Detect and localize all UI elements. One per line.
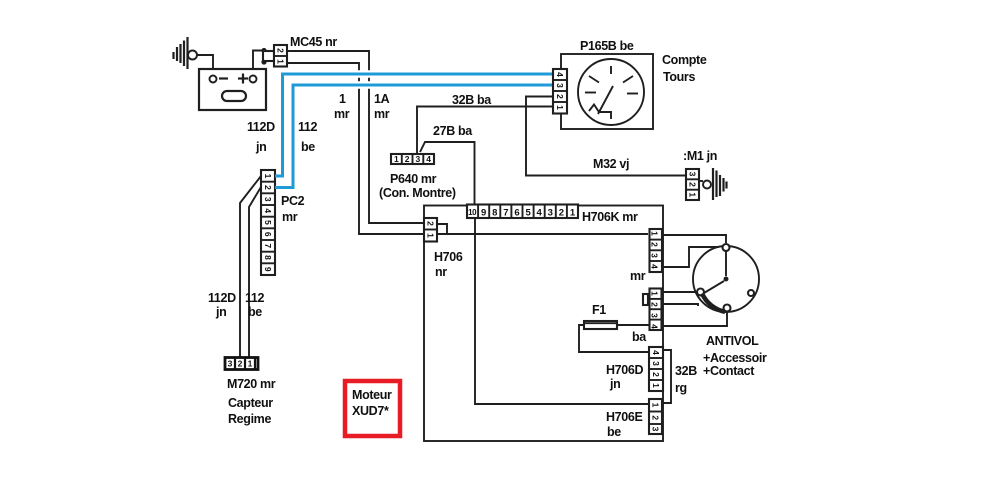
svg-text:2: 2	[555, 94, 565, 99]
svg-text:PC2: PC2	[281, 194, 305, 208]
svg-text:112D: 112D	[208, 291, 236, 305]
svg-text:3: 3	[650, 253, 660, 258]
bracket 32B rg	[663, 350, 671, 403]
wire ba pin2 to switch edge	[661, 304, 698, 306]
connector H706 left	[424, 218, 437, 242]
svg-text:P640 mr: P640 mr	[390, 172, 437, 186]
svg-text:4: 4	[651, 350, 661, 355]
svg-text:1: 1	[651, 383, 661, 388]
svg-text:2: 2	[426, 221, 436, 226]
wire mr pin1 to top contact	[661, 235, 726, 243]
svg-text:8: 8	[492, 208, 497, 219]
svg-text:rg: rg	[675, 381, 687, 395]
wire PC2 pin1 to M720 (112D jn)	[240, 176, 261, 358]
svg-text:jn: jn	[255, 140, 266, 154]
wire PC2 pin2 to M720 (112 be)	[249, 187, 261, 358]
wire inside H706K pin10 to H706E pin1	[475, 218, 649, 404]
svg-text:6: 6	[514, 208, 519, 219]
svg-text:Capteur: Capteur	[228, 396, 273, 410]
svg-text:2: 2	[276, 48, 286, 53]
wire blue 112D jn (tach pin4 to PC2 pin1)	[275, 74, 553, 176]
svg-text:1: 1	[650, 291, 660, 296]
svg-text:4: 4	[263, 208, 273, 213]
svg-text:6: 6	[263, 232, 273, 237]
svg-text:3: 3	[651, 361, 661, 366]
svg-text:jn: jn	[215, 305, 226, 319]
svg-text:ANTIVOL: ANTIVOL	[706, 334, 759, 348]
svg-text:M32 vj: M32 vj	[593, 157, 629, 171]
svg-text:nr: nr	[435, 265, 447, 279]
svg-text:2: 2	[651, 415, 661, 420]
connector M720	[225, 358, 258, 370]
svg-text:1: 1	[339, 92, 346, 106]
svg-text:2: 2	[651, 372, 661, 377]
wire 27B ba (P640 pin4 to H706K pin10)	[420, 142, 475, 205]
svg-text:mr: mr	[282, 210, 298, 224]
ignition switch ANTIVOL	[693, 244, 759, 312]
svg-text:2: 2	[650, 242, 660, 247]
svg-text:1A: 1A	[374, 92, 390, 106]
Moteur XUD7 red box	[345, 381, 400, 436]
tachometer P165B box	[561, 54, 653, 129]
svg-text:1: 1	[263, 174, 273, 179]
svg-text:Tours: Tours	[663, 70, 695, 84]
wire ground to battery minus	[197, 55, 213, 69]
tachometer gauge face	[578, 59, 644, 125]
svg-text:1: 1	[426, 233, 436, 238]
svg-text:112D: 112D	[247, 120, 275, 134]
svg-text:+Accessoir: +Accessoir	[703, 351, 767, 365]
svg-text:4: 4	[650, 324, 660, 329]
wire fuse left to H706D pin1	[579, 325, 649, 352]
connector mr (right top)	[650, 229, 663, 272]
svg-text:ba: ba	[632, 330, 647, 344]
svg-text:5: 5	[263, 220, 273, 225]
wire mr pin4 to switch edge	[661, 247, 719, 267]
fuse F1	[584, 321, 617, 329]
svg-text:+Contact: +Contact	[703, 364, 755, 378]
svg-text:9: 9	[481, 208, 486, 219]
svg-text:1: 1	[651, 403, 661, 408]
wire M32 vj (tach pin2 to M1)	[526, 97, 686, 176]
svg-text:32B: 32B	[675, 364, 697, 378]
svg-text:1: 1	[555, 105, 565, 110]
svg-text:M720 mr: M720 mr	[227, 377, 276, 391]
wire MC45 pin1 to H706 pin1 (1 mr)	[287, 63, 424, 234]
ground (M1)	[699, 168, 727, 200]
svg-text:3: 3	[263, 197, 273, 202]
svg-text:3: 3	[228, 359, 233, 369]
svg-text:112: 112	[245, 291, 265, 305]
svg-text:8: 8	[263, 255, 273, 260]
svg-text:3: 3	[688, 172, 698, 177]
connector H706D	[649, 347, 663, 391]
svg-text:2: 2	[688, 182, 698, 187]
svg-text:2: 2	[238, 359, 243, 369]
svg-text:XUD7*: XUD7*	[352, 404, 389, 418]
svg-text:3: 3	[650, 313, 660, 318]
connector P640	[391, 154, 434, 164]
wire casing	[340, 70, 545, 78]
svg-text:1: 1	[650, 231, 660, 236]
wire bottom contact to ba pin4 (outside)	[663, 312, 727, 327]
svg-text:Regime: Regime	[228, 412, 271, 426]
ground (battery chassis ground)	[174, 37, 198, 69]
wire fuse right to ba pin4	[617, 324, 650, 326]
svg-text:2: 2	[263, 185, 273, 190]
svg-text:3: 3	[416, 154, 421, 164]
svg-text:3: 3	[651, 427, 661, 432]
svg-text:3: 3	[555, 83, 565, 88]
connector M1	[686, 169, 699, 200]
svg-text:F1: F1	[592, 303, 606, 317]
wire inside H706 pin1 to mr connector	[437, 233, 648, 235]
svg-text:10: 10	[468, 208, 477, 217]
svg-text:H706E: H706E	[606, 410, 642, 424]
H706 box	[424, 206, 663, 442]
svg-text:1: 1	[276, 59, 286, 64]
svg-text:2: 2	[559, 208, 564, 219]
svg-text:jn: jn	[609, 377, 620, 391]
svg-text:1: 1	[688, 192, 698, 197]
svg-text:4: 4	[537, 208, 543, 219]
svg-text:(Con. Montre): (Con. Montre)	[379, 186, 456, 200]
svg-text:32B ba: 32B ba	[452, 93, 492, 107]
svg-text:7: 7	[263, 243, 273, 248]
connector P165B pins	[553, 69, 567, 114]
svg-text:be: be	[248, 305, 262, 319]
svg-text:2: 2	[405, 154, 410, 164]
svg-text:Compte: Compte	[662, 53, 707, 67]
svg-text:be: be	[607, 425, 621, 439]
svg-text:9: 9	[263, 267, 273, 272]
connector H706K	[467, 205, 578, 219]
connector ba (right middle)	[643, 289, 662, 331]
svg-text::M1 jn: :M1 jn	[683, 149, 717, 163]
svg-text:MC45 nr: MC45 nr	[290, 35, 337, 49]
svg-text:4: 4	[650, 264, 660, 269]
wire battery plus to MC45	[253, 48, 267, 69]
svg-text:H706D: H706D	[606, 363, 643, 377]
wire H706 pin2 stub inside	[437, 224, 447, 235]
svg-text:P165B be: P165B be	[580, 39, 634, 53]
svg-text:mr: mr	[630, 269, 646, 283]
svg-text:112: 112	[298, 120, 318, 134]
svg-text:1: 1	[394, 154, 399, 164]
connector PC2	[261, 170, 275, 275]
svg-text:2: 2	[650, 302, 660, 307]
battery	[199, 69, 266, 110]
wire blue 112 be (tach pin3 to PC2 pin2)	[275, 85, 553, 188]
svg-text:7: 7	[503, 208, 508, 219]
svg-text:H706K mr: H706K mr	[582, 210, 638, 224]
svg-text:3: 3	[548, 208, 553, 219]
svg-text:mr: mr	[374, 107, 390, 121]
connector MC45	[263, 45, 287, 67]
svg-text:1: 1	[570, 208, 576, 219]
svg-text:5: 5	[525, 208, 531, 219]
wire ba pin1 to left contact	[661, 291, 697, 293]
svg-text:mr: mr	[334, 107, 350, 121]
connector H706E	[649, 399, 662, 434]
svg-text:H706: H706	[434, 250, 463, 264]
wire MC45 pin2 to H706 pin2 (1A mr)	[287, 51, 424, 223]
svg-text:1: 1	[248, 359, 253, 369]
svg-text:4: 4	[426, 154, 431, 164]
svg-text:Moteur: Moteur	[352, 388, 392, 402]
wire 32B ba (tach pin1 to P640 pin3)	[417, 107, 553, 155]
svg-text:27B ba: 27B ba	[433, 124, 473, 138]
svg-text:4: 4	[555, 72, 565, 77]
svg-text:be: be	[301, 140, 315, 154]
